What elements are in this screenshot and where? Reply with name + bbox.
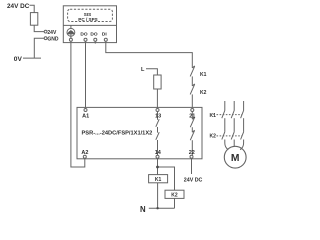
svg-text:13: 13 <box>155 113 161 119</box>
svg-text:21: 21 <box>189 113 195 119</box>
svg-text:24V DC: 24V DC <box>184 178 203 184</box>
svg-text:PSR-...-24DC/FSP/1X1/1X2: PSR-...-24DC/FSP/1X1/1X2 <box>82 130 153 136</box>
svg-text:PC / SPS: PC / SPS <box>78 17 97 22</box>
svg-text:GND: GND <box>47 36 59 42</box>
svg-text:DO: DO <box>80 32 87 38</box>
svg-text:14: 14 <box>155 150 162 156</box>
svg-text:L: L <box>141 67 145 73</box>
svg-text:DO: DO <box>90 32 97 38</box>
svg-text:24V DC: 24V DC <box>7 3 30 10</box>
svg-text:M: M <box>231 153 240 164</box>
svg-text:24V: 24V <box>47 30 57 36</box>
svg-text:K2: K2 <box>210 134 217 140</box>
svg-text:DI: DI <box>102 32 107 38</box>
svg-text:22: 22 <box>189 150 195 156</box>
svg-text:K1: K1 <box>200 72 207 78</box>
svg-text:A2: A2 <box>81 150 88 156</box>
svg-text:0V: 0V <box>14 56 23 63</box>
svg-text:N: N <box>140 205 146 214</box>
svg-text:K2: K2 <box>171 192 178 198</box>
svg-text:A1: A1 <box>82 113 89 119</box>
svg-text:K2: K2 <box>200 90 207 96</box>
svg-text:K1: K1 <box>155 177 162 183</box>
